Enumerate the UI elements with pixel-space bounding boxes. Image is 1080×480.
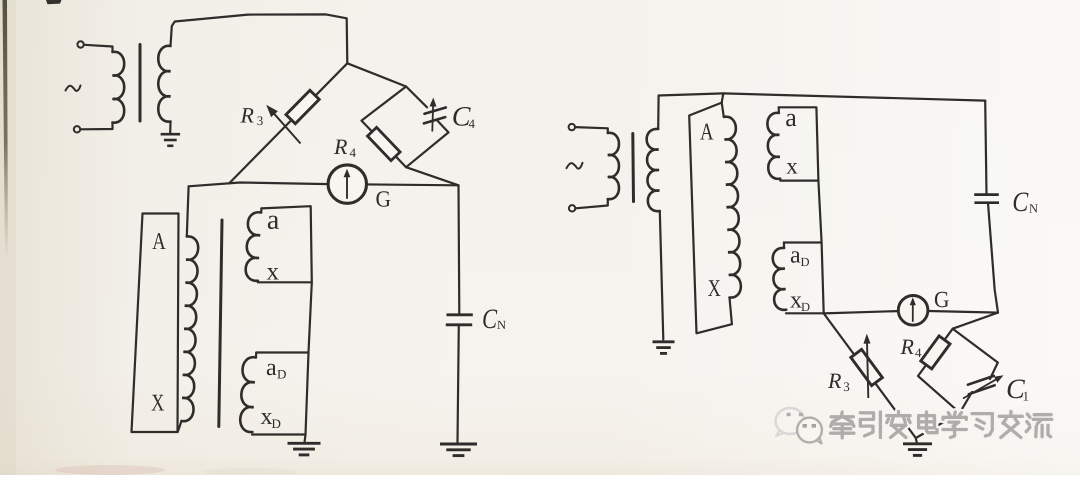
svg-text:R: R: [899, 334, 914, 359]
svg-text:3: 3: [257, 113, 264, 128]
label R3 (right): [827, 368, 850, 394]
wire winding a-x down to aD-xD (left): [306, 282, 312, 434]
winding aD-xD box (right): [773, 243, 824, 314]
transformer T1 secondary coil (left): [158, 46, 170, 122]
svg-text:x: x: [786, 154, 798, 179]
svg-text:G: G: [934, 287, 950, 312]
transformer T2 primary coil (right): [608, 133, 619, 199]
wire bus down to winding A (right): [722, 93, 724, 102]
galvanometer G (right): [898, 296, 928, 326]
resistor in bridge arm (left): [368, 127, 401, 160]
capacitor CN (left): [446, 185, 473, 442]
svg-text:C: C: [1012, 187, 1028, 218]
adjustable arrow of R3 (left): [266, 105, 300, 144]
voltage transformer box A-X (right): [689, 103, 732, 334]
svg-text:a: a: [790, 243, 801, 269]
winding a-x box (right): [767, 107, 818, 180]
wire from ac terminals to primary (left): [81, 45, 113, 130]
svg-text:a: a: [785, 103, 797, 132]
label G (left): [375, 187, 391, 212]
svg-text:3: 3: [843, 379, 850, 394]
adjustable arrow of R3 (right): [864, 334, 871, 398]
label aD (right): [790, 243, 810, 270]
svg-text:D: D: [277, 367, 286, 382]
svg-text:D: D: [800, 255, 809, 269]
label aD (left): [266, 355, 286, 382]
label A (left): [152, 229, 166, 255]
label C4 (left): [452, 102, 476, 133]
capacitor C1 (right): [963, 375, 1004, 398]
wire diagonal xD to ground node (right): [824, 313, 916, 438]
svg-text:a: a: [267, 205, 280, 236]
label CN (right): [1012, 187, 1038, 218]
svg-text:C: C: [482, 304, 497, 335]
ac source terminal circles (right circuit): [569, 124, 576, 212]
transformer T1 primary coil (left): [113, 52, 125, 123]
transformer T2 secondary coil (right): [647, 129, 660, 211]
svg-text:D: D: [801, 300, 810, 314]
label a (left): [267, 205, 280, 236]
wire CN corner down to bridge arm (right): [953, 313, 998, 329]
label A (right): [700, 120, 714, 146]
label a (right): [785, 103, 797, 132]
wire bridge arm to CN corner (left): [406, 167, 458, 185]
ac symbol ~ (right): [567, 163, 583, 169]
page left edge dark strip: [0, 0, 16, 475]
winding aD-xD box (left): [240, 353, 308, 435]
capacitor CN branch (right): [974, 101, 999, 313]
svg-text:X: X: [708, 276, 721, 302]
svg-text:X: X: [151, 391, 164, 417]
transformer T1 core (left): [139, 45, 142, 122]
label R4 (right): [899, 334, 922, 360]
label x (left): [266, 259, 279, 286]
label C1 (right): [1006, 374, 1029, 405]
label X (right): [708, 276, 721, 302]
svg-text:1: 1: [1022, 389, 1029, 404]
bottom bleed-through marks: [55, 465, 298, 476]
watermark wechat icon and text: [776, 408, 1052, 444]
transformer T2 core (right): [631, 134, 635, 202]
wire horizontal bus (left): [189, 183, 459, 187]
svg-text:N: N: [497, 318, 506, 332]
ground (winding aD-xD, left): [288, 435, 321, 455]
wire left diagonal apex to bus (left): [229, 63, 347, 183]
svg-text:R: R: [239, 102, 254, 127]
capacitor C4 (left): [424, 98, 446, 132]
voltage transformer box A-X (left): [132, 214, 179, 433]
winding A-X coil (left): [178, 236, 198, 431]
svg-text:4: 4: [349, 145, 356, 160]
ground (CN, left): [440, 444, 477, 456]
top-left page mark: [46, 0, 62, 4]
wire winding a-x down to aD-xD (right): [818, 181, 823, 314]
label R3 (left): [239, 102, 263, 128]
wire bridge arm to ground node (right): [916, 413, 960, 438]
galvanometer G (left): [328, 165, 366, 203]
ac symbol ~ (left): [66, 86, 81, 91]
wire top bus (left): [171, 14, 348, 63]
ground (bottom node, right): [903, 438, 932, 455]
bridge arm rectangle (resistor and C4 in parallel, left): [362, 87, 449, 168]
label xD (right): [790, 288, 810, 315]
label xD (left): [260, 404, 280, 431]
svg-text:a: a: [266, 355, 277, 381]
wire bus down to winding A (left): [187, 186, 189, 236]
wire from ac terminals to primary (right): [575, 127, 607, 208]
resistor R3 (left): [286, 90, 319, 123]
ground (T1 secondary, left): [161, 122, 181, 146]
resistor R3 (right): [851, 349, 883, 385]
label R4 (left): [333, 134, 357, 160]
svg-text:A: A: [700, 120, 714, 146]
svg-text:A: A: [152, 229, 166, 255]
ground (T2 secondary, right): [653, 211, 675, 353]
svg-text:R: R: [333, 134, 348, 159]
bridge arm rectangle (R4 and C1 in parallel, right): [918, 329, 998, 413]
wire right diagonal apex to bridge arm (left): [347, 63, 406, 86]
label G (right): [934, 287, 950, 312]
ac source terminal circles (left circuit): [74, 41, 84, 132]
svg-text:D: D: [271, 416, 280, 431]
label CN (left): [482, 304, 506, 335]
label x (right): [786, 154, 798, 179]
svg-text:N: N: [1029, 202, 1038, 216]
voltage transformer core (left): [219, 220, 222, 427]
svg-text:4: 4: [468, 116, 475, 131]
svg-text:R: R: [827, 368, 842, 393]
winding a-x box (left): [246, 206, 312, 282]
svg-text:x: x: [266, 259, 279, 286]
wire top bus (right): [658, 93, 985, 129]
svg-text:4: 4: [915, 345, 922, 360]
winding A-X coil (right): [724, 117, 741, 298]
wire galvanometer line (right): [824, 311, 998, 314]
svg-text:G: G: [375, 187, 391, 212]
label X (left): [151, 391, 164, 417]
resistor R4 (right): [921, 336, 950, 369]
